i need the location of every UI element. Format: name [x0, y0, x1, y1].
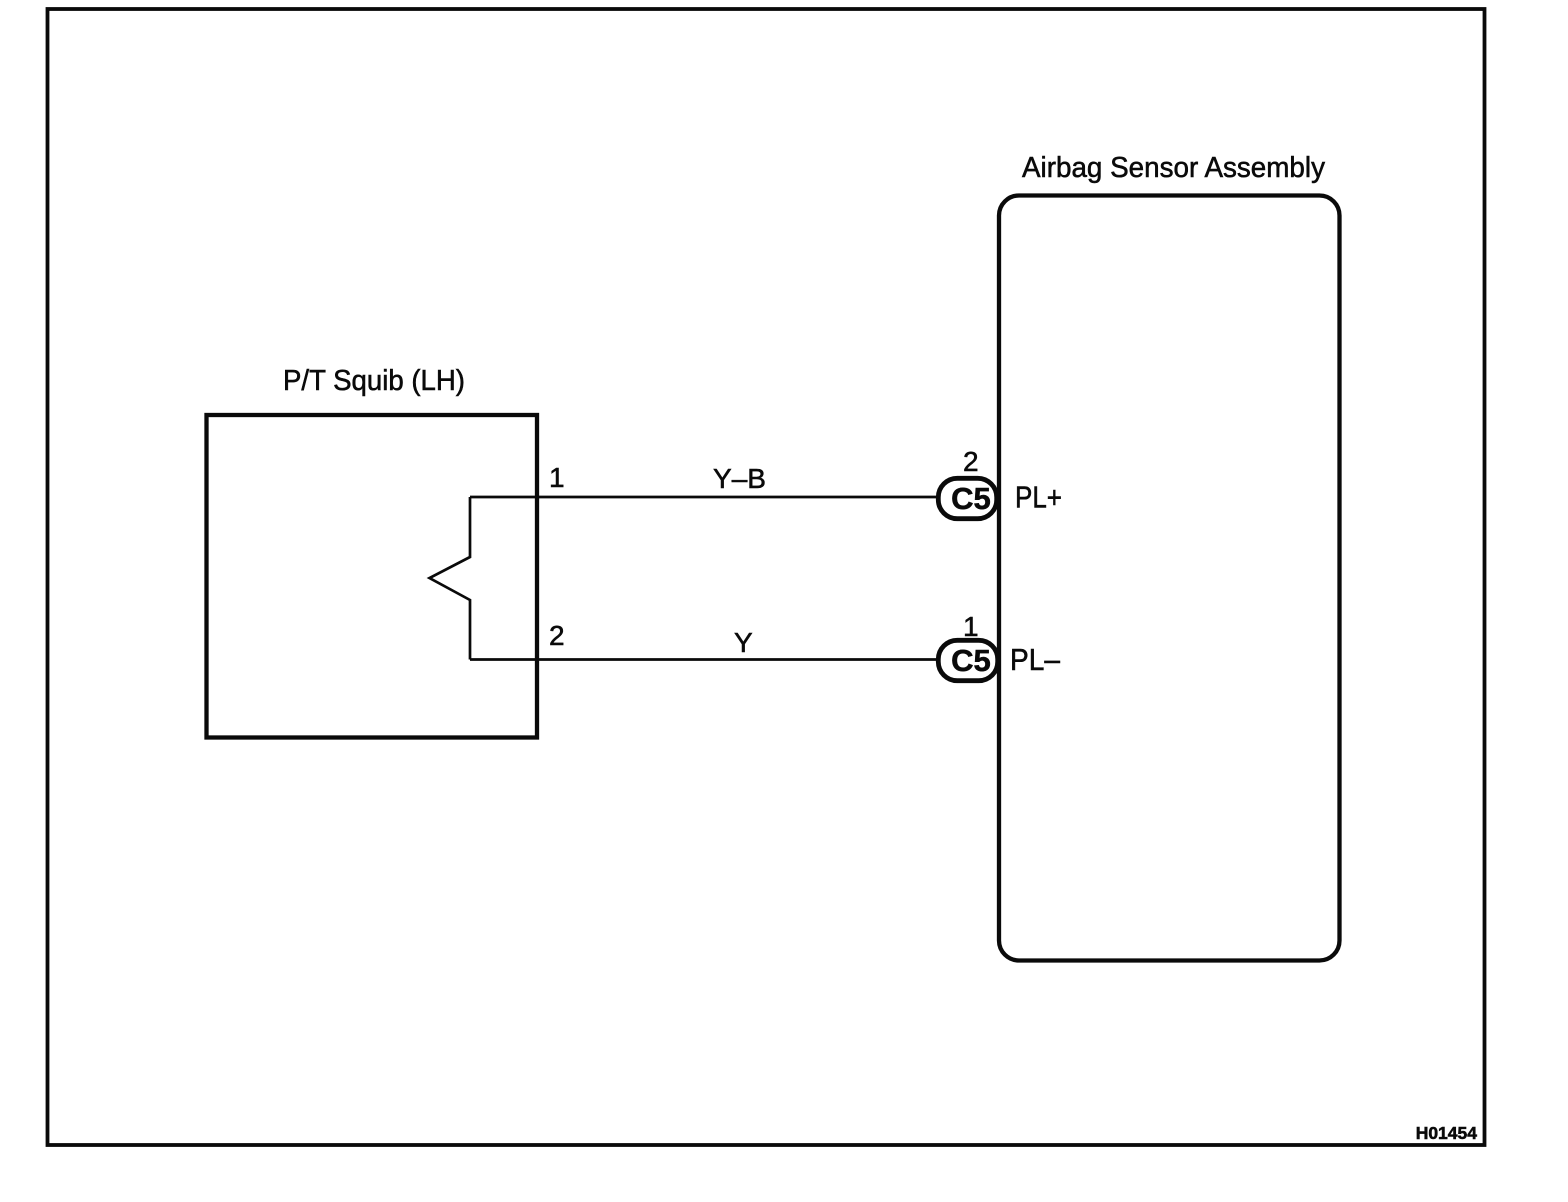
svg-text:C5: C5	[951, 643, 991, 678]
svg-text:H01454: H01454	[1416, 1123, 1478, 1143]
component Airbag Sensor Assembly box	[999, 196, 1340, 961]
connector C5 oval (pin 2, PL+)	[938, 478, 996, 518]
svg-text:Y: Y	[734, 627, 753, 658]
component P/T Squib (LH) box	[207, 415, 538, 738]
svg-text:C5: C5	[951, 481, 991, 516]
svg-text:2: 2	[963, 446, 979, 477]
svg-text:1: 1	[963, 611, 979, 642]
svg-text:1: 1	[549, 462, 565, 493]
svg-text:Airbag Sensor Assembly: Airbag Sensor Assembly	[1022, 152, 1325, 184]
squib connector symbol inside box	[430, 497, 471, 660]
svg-text:P/T Squib (LH): P/T Squib (LH)	[283, 365, 465, 397]
svg-text:PL–: PL–	[1010, 642, 1061, 677]
wire Y-B (pin1 to C5 pin2)	[470, 496, 937, 499]
svg-text:2: 2	[549, 620, 565, 651]
connector C5 oval (pin 1, PL-)	[938, 640, 997, 680]
svg-text:PL+: PL+	[1015, 480, 1062, 515]
wire Y (pin2 to C5 pin1)	[470, 658, 937, 661]
svg-text:Y–B: Y–B	[713, 463, 766, 494]
